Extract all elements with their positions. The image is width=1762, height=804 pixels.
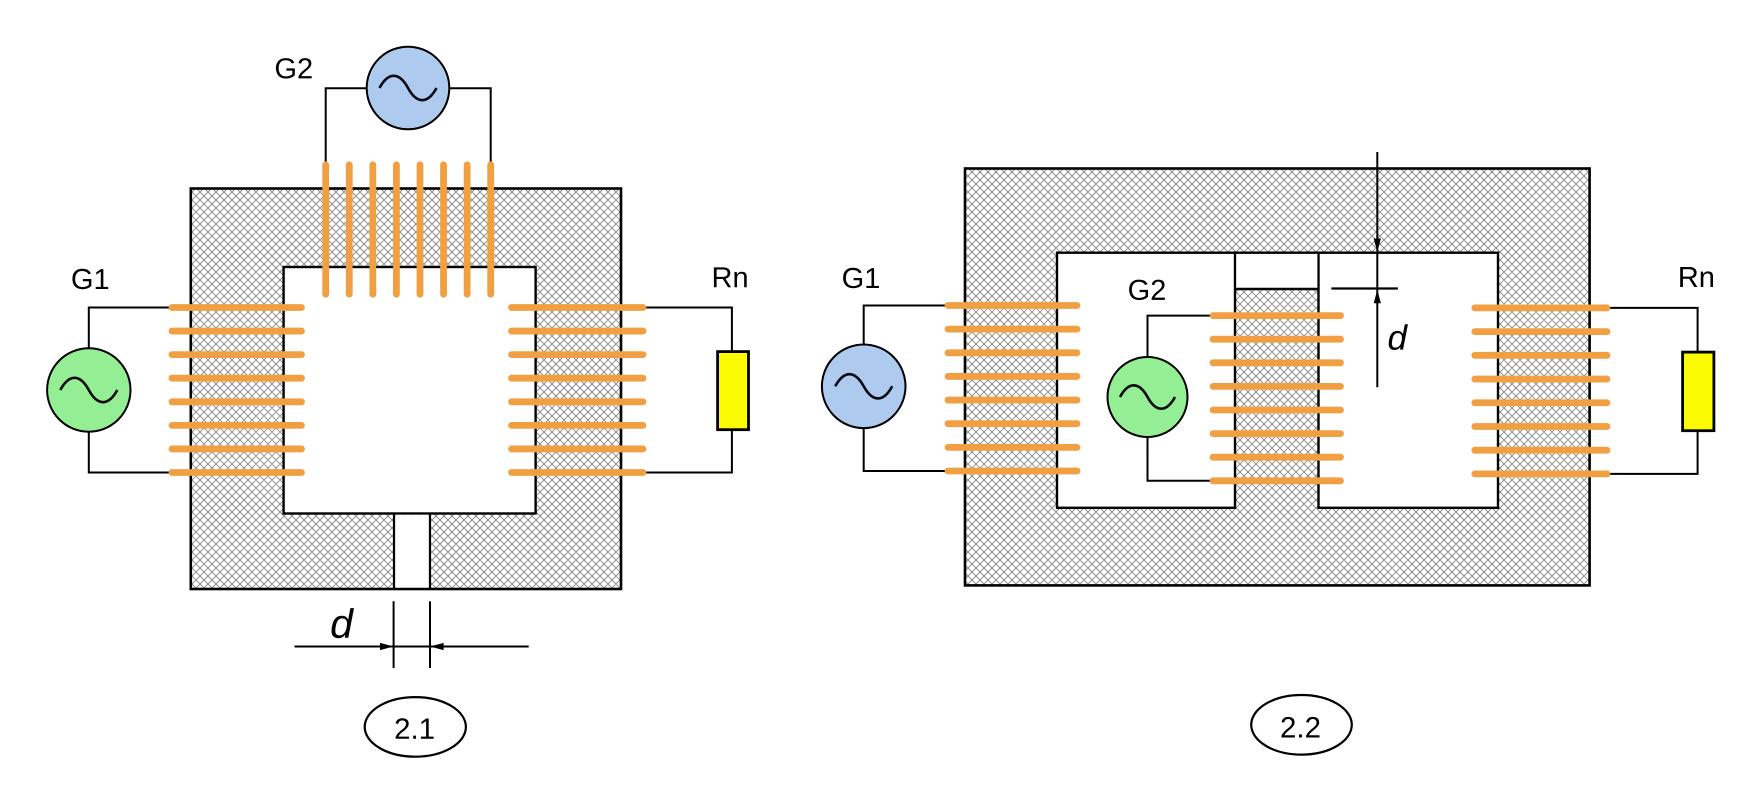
AC source G1 2.1 [47, 348, 130, 431]
wire Rn loop 2.1 [640, 308, 732, 473]
label G2 2.2 [1129, 280, 1165, 301]
label d 2.2 [1389, 324, 1408, 350]
resistor Rn 2.1 [718, 352, 749, 430]
air gap at top of center limb 2.2 [1234, 253, 1320, 289]
label G2 2.1 [276, 58, 312, 79]
core 2.2 (hatched magnetic core with two windows) [541, 167, 1762, 587]
wire G1 bottom 2.1 [89, 390, 180, 473]
winding W2 of G2 on top limb 2.1 [326, 165, 491, 294]
callout ellipse 2.2 [1251, 695, 1352, 755]
winding of G2 on center limb 2.2 [1213, 316, 1341, 481]
label Rn 2.2 [1680, 267, 1713, 287]
winding to Rn on right limb 2.2 [1475, 308, 1607, 474]
label d 2.1 [332, 608, 355, 638]
wire G1 top 2.2 [864, 306, 955, 387]
label G1 2.1 [72, 269, 108, 290]
wire G1 top 2.1 [89, 308, 180, 391]
label Rn 2.1 [714, 267, 747, 287]
dimension d of center-limb gap 2.2 [1331, 152, 1398, 387]
winding of G1 on left limb 2.2 [948, 306, 1077, 472]
AC source G2 2.2 [1108, 357, 1188, 437]
wire G1 bottom 2.2 [864, 386, 955, 471]
wire G2 bottom 2.2 [1148, 397, 1219, 481]
dimension d of air gap 2.1 [295, 601, 529, 668]
resistor Rn 2.2 [1683, 352, 1714, 431]
winding W3 to Rn on right limb 2.1 [512, 308, 644, 473]
label G1 2.2 [843, 268, 879, 289]
wire G2 top 2.2 [1148, 316, 1219, 397]
core 2.1 (hatched magnetic core) [0, 187, 1022, 590]
AC source G1 2.2 [822, 345, 906, 429]
callout ellipse 2.1 [365, 697, 466, 757]
winding W1 of G1 on left limb 2.1 [172, 308, 302, 473]
AC source G2 2.1 [367, 47, 450, 130]
air gap in bottom limb of core 2.1 [394, 514, 430, 589]
wire G2 loop 2.1 [326, 88, 491, 166]
wire Rn loop 2.2 [1604, 308, 1698, 474]
